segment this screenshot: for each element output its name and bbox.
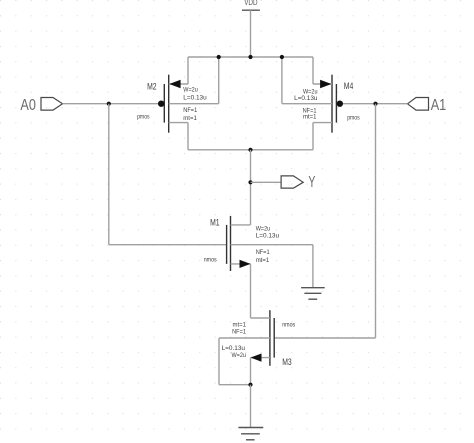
svg-text:M1: M1 <box>210 217 220 227</box>
wire M3 bulk left vertical <box>218 338 220 385</box>
wire Y rail <box>188 149 313 151</box>
junction on VDD rail center <box>248 55 252 59</box>
svg-text:W=2u: W=2u <box>183 87 198 94</box>
transistor M3 (nmos) <box>219 310 274 366</box>
transistor M1 (nmos) <box>227 216 313 271</box>
svg-text:W=2u: W=2u <box>232 352 247 359</box>
wire to ground <box>250 385 252 428</box>
wire M2 source vertical <box>187 57 189 84</box>
wire M2 drain vertical <box>187 123 189 150</box>
svg-text:NF=1: NF=1 <box>256 249 270 256</box>
wire M4 drain vertical <box>312 123 314 150</box>
svg-text:L=0.13u: L=0.13u <box>294 95 318 102</box>
input pin A1 <box>408 97 447 114</box>
wire M3 bulk bottom <box>219 384 251 386</box>
wire M4 bulk vertical <box>281 57 283 104</box>
svg-text:A0: A0 <box>20 97 36 114</box>
wire A1 vertical <box>375 104 377 338</box>
wire A0 vertical <box>108 104 110 245</box>
wire M2 bulk vertical <box>218 57 220 104</box>
svg-text:A1: A1 <box>431 97 447 114</box>
svg-text:NF=1: NF=1 <box>232 328 246 335</box>
junction below M3 <box>248 383 252 387</box>
ground symbol at M1 bulk <box>301 288 325 300</box>
wire A1 horizontal <box>343 103 408 105</box>
junction on VDD rail left <box>217 55 221 59</box>
wire M1 source to M3 drain <box>250 264 252 318</box>
power symbol VDD bar <box>242 9 260 11</box>
svg-text:pmos: pmos <box>347 114 360 121</box>
svg-text:mt=1: mt=1 <box>303 113 317 120</box>
svg-text:L=0.13u: L=0.13u <box>256 233 280 240</box>
svg-text:VDD: VDD <box>244 0 257 7</box>
svg-text:nmos: nmos <box>204 257 218 264</box>
svg-text:M4: M4 <box>344 81 354 91</box>
junction node A1 <box>373 102 377 106</box>
svg-text:Y: Y <box>308 174 315 191</box>
junction node A0 <box>107 102 111 106</box>
wire Y vertical <box>250 150 252 225</box>
wire M3 source vertical <box>250 358 252 385</box>
wire M1 gate <box>109 244 227 246</box>
input pin A0 <box>20 97 62 114</box>
junction on Y rail <box>248 148 252 152</box>
svg-text:nmos: nmos <box>282 321 296 328</box>
svg-text:pmos: pmos <box>137 114 150 121</box>
net VDD label <box>244 0 257 7</box>
transistor M2 (pmos) <box>158 75 219 133</box>
junction on VDD rail right <box>280 55 284 59</box>
svg-text:M3: M3 <box>282 357 292 367</box>
svg-text:NF=1: NF=1 <box>183 107 197 114</box>
svg-text:mt=1: mt=1 <box>183 115 197 122</box>
output pin Y <box>281 174 316 191</box>
svg-text:mt=1: mt=1 <box>256 257 270 264</box>
svg-text:L=0.13u: L=0.13u <box>183 95 207 102</box>
junction node Y <box>248 180 252 184</box>
wire M3 gate <box>274 337 375 339</box>
wire M4 source vertical <box>312 57 314 84</box>
ground symbol at bottom <box>238 428 263 440</box>
wire VDD rail <box>188 56 313 58</box>
wire M1 bulk to ground <box>312 245 314 288</box>
svg-text:M2: M2 <box>147 81 157 91</box>
wire A0 horizontal <box>63 103 159 105</box>
transistor M4 (pmos) <box>282 75 343 133</box>
wire VDD vertical <box>250 10 252 57</box>
wire Y stub <box>251 181 282 183</box>
